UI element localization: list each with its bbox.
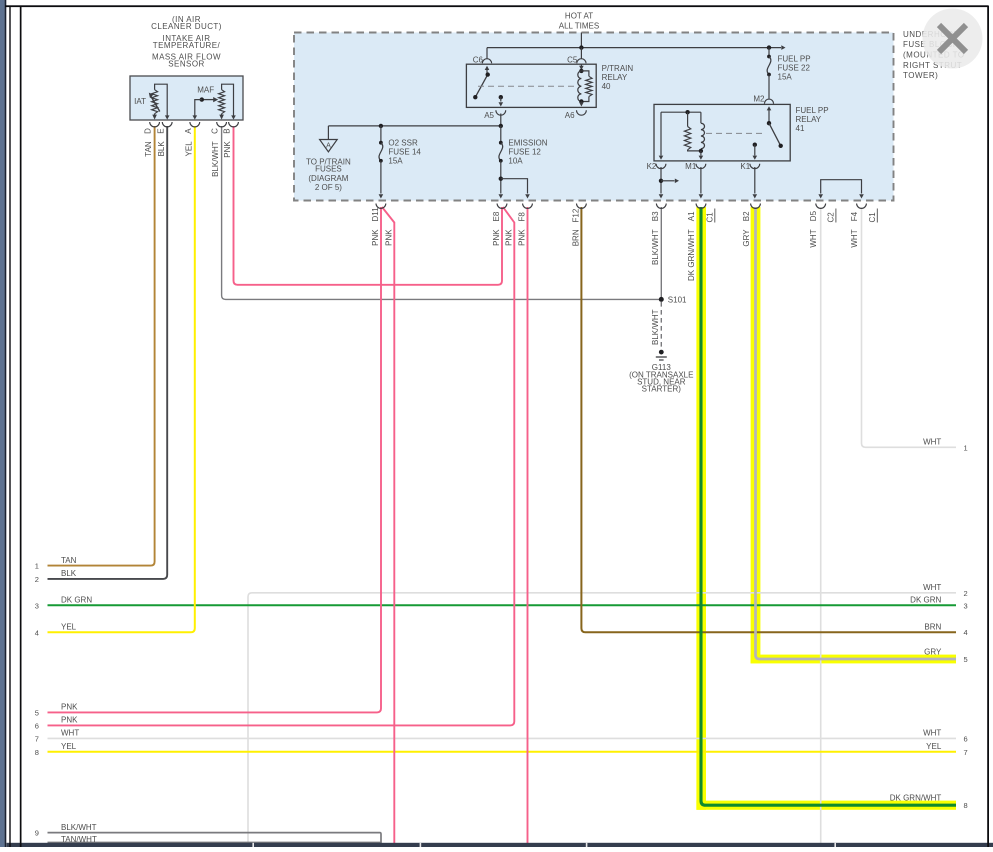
MAF wiper arrow: [202, 99, 214, 101]
svg-text:FUEL PP: FUEL PP: [778, 55, 811, 64]
svg-text:PNK: PNK: [223, 141, 232, 158]
highlight band: DK GRN/WHT wire (horizontal to right edge 8): [696, 801, 956, 810]
highlight band: GRY wire B2 (vertical): [751, 207, 761, 663]
svg-text:C1: C1: [705, 212, 714, 223]
bracket D5-F4 tie: [821, 180, 862, 194]
svg-text:F8: F8: [518, 212, 527, 222]
highlight band: GRY wire (horizontal to right edge 5): [751, 655, 956, 664]
svg-text:5: 5: [964, 655, 968, 664]
IAT/MAF sensor box: [130, 76, 243, 120]
wire PNK link MAF-B to E8: [234, 126, 503, 285]
svg-text:C2: C2: [826, 212, 835, 223]
highlight band: DK GRN/WHT wire A1 (vertical): [696, 207, 706, 810]
wire BLK/WHT to left edge 9: [48, 833, 382, 843]
bottom bar gap 4: [834, 843, 836, 847]
relay coil (inductor): [578, 71, 582, 102]
svg-text:TAN/WHT: TAN/WHT: [61, 835, 97, 844]
relay 41 internal dashed link: [706, 132, 763, 134]
svg-text:WHT: WHT: [923, 583, 941, 592]
svg-text:PNK: PNK: [518, 229, 527, 246]
svg-text:EMISSION: EMISSION: [508, 138, 547, 147]
svg-text:O2 SSR: O2 SSR: [388, 138, 418, 147]
wire BLK to left edge 2: [48, 126, 168, 579]
relay 41 coil resistor: [687, 112, 689, 126]
MAF wiper elbow to pin A: [195, 100, 202, 116]
svg-text:WHT: WHT: [923, 729, 941, 738]
bottom bar gap 3: [586, 843, 588, 847]
svg-text:A: A: [326, 142, 331, 149]
svg-text:K2: K2: [647, 162, 657, 171]
terminal C5 arc: [577, 59, 586, 64]
relay 41 switch arm M2: [768, 108, 770, 123]
svg-text:8: 8: [35, 748, 39, 757]
svg-text:3: 3: [964, 601, 968, 610]
sensor pin arrows at box bottom: [152, 115, 157, 120]
wire PNK vertical from connector F8 (to bottom): [527, 207, 529, 843]
wire BLK/WHT link sensor-C to splice S101: [222, 126, 662, 299]
wire BLK/WHT dashed to ground: [660, 302, 662, 349]
svg-text:6: 6: [35, 721, 39, 730]
underhood fuse block dashed border: [294, 33, 894, 201]
relay 41 coil inductor: [700, 112, 702, 123]
svg-text:BRN: BRN: [924, 622, 941, 631]
svg-text:BLK/WHT: BLK/WHT: [651, 309, 660, 345]
svg-text:M1: M1: [685, 162, 697, 171]
connector arc E8: [497, 204, 507, 209]
svg-text:40: 40: [602, 82, 611, 91]
close button circle: [923, 9, 983, 69]
wire PNK to left edge 6 (from E8 second): [48, 207, 515, 725]
svg-text:F4: F4: [850, 211, 859, 221]
svg-text:YEL: YEL: [926, 742, 942, 751]
connector arc B3: [656, 204, 666, 209]
wire WHT vertical from connector D5 (to bottom): [820, 207, 822, 843]
IAT bottom lead pin D: [154, 114, 156, 116]
svg-text:K1: K1: [740, 162, 750, 171]
svg-text:A1: A1: [687, 211, 696, 221]
svg-text:BRN: BRN: [571, 229, 580, 246]
svg-text:WHT: WHT: [61, 729, 79, 738]
left frame line inner: [20, 6, 22, 847]
svg-text:SENSOR: SENSOR: [168, 60, 205, 69]
svg-text:F12: F12: [571, 208, 580, 222]
sensor pin connector arcs: [150, 122, 160, 127]
svg-text:5: 5: [35, 708, 39, 717]
svg-text:4: 4: [964, 628, 968, 637]
svg-text:YEL: YEL: [61, 623, 77, 632]
svg-text:M2: M2: [753, 95, 765, 104]
svg-text:CLEANER DUCT): CLEANER DUCT): [151, 22, 222, 31]
svg-text:4: 4: [35, 628, 39, 637]
svg-text:PNK: PNK: [492, 229, 501, 246]
svg-text:P/TRAIN: P/TRAIN: [602, 64, 634, 73]
svg-text:BLK/WHT: BLK/WHT: [211, 141, 220, 177]
svg-text:YEL: YEL: [184, 141, 193, 157]
svg-text:RELAY: RELAY: [602, 73, 628, 82]
svg-text:D11: D11: [371, 207, 380, 222]
wire PNK to left edge 5 (from D11): [48, 207, 382, 712]
svg-text:DK GRN/WHT: DK GRN/WHT: [687, 229, 696, 281]
wire DK GRN horizontal full width 3: [48, 604, 957, 606]
svg-text:S101: S101: [668, 295, 687, 304]
wire DK GRN/WHT to right edge 8 (from A1): [701, 207, 956, 805]
junction node hot feed: [579, 45, 583, 49]
close button X: [939, 25, 966, 52]
wire PNK from connector D11 (second, slants then to bottom): [382, 207, 394, 843]
right frame line: [987, 6, 989, 847]
junction node fuel pp fuse tap: [767, 45, 771, 49]
top frame line: [5, 5, 989, 7]
terminal C6 arc: [482, 59, 491, 64]
riser to C6: [486, 48, 488, 59]
thermistor IAT: [152, 90, 158, 114]
riser to C5: [580, 48, 582, 59]
svg-text:DK GRN: DK GRN: [61, 596, 92, 605]
svg-text:A: A: [184, 128, 193, 134]
svg-text:FUSE 12: FUSE 12: [508, 148, 541, 157]
wire WHT to right edge 1 (from F4): [862, 207, 957, 447]
svg-text:TEMPERATURE/: TEMPERATURE/: [153, 41, 221, 50]
connector arc B2: [751, 204, 761, 209]
branch arrow right from K2 wire: [661, 180, 675, 182]
wire GRY to right edge 5 (from B2): [756, 207, 957, 659]
off-page triangle A: [320, 140, 338, 152]
svg-text:TOWER): TOWER): [903, 71, 938, 80]
wire hot feed vertical from top border: [580, 33, 582, 48]
svg-text:DK GRN: DK GRN: [910, 596, 941, 605]
fuse O2 SSR FUSE 14 15A: [380, 126, 382, 143]
svg-text:15A: 15A: [388, 157, 403, 166]
drop to triangle A: [327, 126, 329, 140]
underhood fuse block box (dashed, light blue): [294, 33, 894, 201]
svg-text:GRY: GRY: [924, 647, 942, 656]
svg-text:B: B: [223, 128, 232, 133]
svg-text:BLK: BLK: [61, 569, 77, 578]
svg-text:WHT: WHT: [809, 229, 818, 247]
relay switch contact to A5: [499, 95, 503, 99]
svg-text:D5: D5: [809, 210, 818, 221]
splice S101: [659, 297, 664, 302]
wire WHT horizontal full width left 7 / right 6: [48, 737, 957, 739]
bus continues arrow right: [781, 45, 785, 50]
wire YEL to left edge 4: [48, 126, 195, 632]
terminal A6 arc: [577, 110, 587, 115]
relay box FUEL PP RELAY 41: [654, 104, 790, 160]
connector arc A1: [696, 204, 706, 209]
wire A5 drop to bus: [500, 114, 502, 126]
svg-text:PNK: PNK: [371, 229, 380, 246]
bus wire horizontal: [487, 47, 781, 49]
svg-text:WHT: WHT: [923, 438, 941, 447]
svg-text:FUSE 14: FUSE 14: [388, 148, 421, 157]
ground G113 symbol: [659, 350, 664, 355]
svg-text:8: 8: [964, 801, 968, 810]
svg-text:2 OF 5): 2 OF 5): [315, 183, 342, 192]
fuse EMISSION FUSE 12 10A: [500, 126, 502, 143]
MAF top elbow to pin B: [222, 84, 234, 115]
svg-text:FUSES: FUSES: [315, 165, 342, 174]
svg-text:PNK: PNK: [61, 716, 78, 725]
left blue strip: [0, 0, 5, 847]
wire YEL horizontal full width left 8 / right 7: [48, 751, 957, 753]
wire WHT right edge 2 with corner down: [248, 593, 956, 843]
IAT thermistor arrow: [151, 96, 160, 112]
wire M1 to A1: [700, 167, 702, 194]
svg-text:A5: A5: [484, 111, 494, 120]
wire BRN to right edge 4 (from F12): [581, 207, 956, 632]
wire BLK/WHT vertical from connector B3 to splice S101: [660, 207, 662, 299]
junction node O2 fuse tap: [379, 124, 383, 128]
terminal M1 arc: [696, 164, 706, 169]
MAF wiper node: [200, 97, 204, 101]
svg-text:3: 3: [35, 601, 39, 610]
left strip dark edge: [5, 0, 7, 847]
svg-text:WHT: WHT: [850, 229, 859, 247]
svg-text:9: 9: [35, 829, 39, 838]
svg-text:C1: C1: [868, 212, 877, 223]
fuse FUEL PP FUSE 22 15A: [768, 48, 770, 57]
wire TAN to left edge 1: [48, 126, 155, 566]
svg-text:2: 2: [35, 575, 39, 584]
svg-text:C5: C5: [567, 56, 578, 65]
svg-text:10A: 10A: [508, 157, 523, 166]
wire TAN/WHT horizontal at bottom edge: [48, 841, 382, 843]
svg-text:6: 6: [964, 734, 968, 743]
connector arc D5: [816, 204, 826, 209]
svg-text:E8: E8: [492, 211, 501, 221]
svg-text:15A: 15A: [778, 73, 793, 82]
relay coil to A6: [580, 101, 582, 104]
relay coil resistor: [581, 71, 589, 76]
svg-text:C: C: [211, 128, 220, 134]
bottom bar gap 2: [420, 843, 422, 847]
svg-text:DK GRN/WHT: DK GRN/WHT: [890, 793, 942, 802]
emission fuse branch to F8: [499, 177, 503, 181]
svg-text:7: 7: [35, 734, 39, 743]
svg-text:1: 1: [964, 443, 968, 452]
connector arc F8: [523, 204, 533, 209]
terminal M2 arc: [764, 99, 773, 104]
IAT top elbow to pin E: [155, 84, 168, 115]
relay 41 switch contact to K1: [753, 143, 757, 147]
svg-text:ALL TIMES: ALL TIMES: [559, 21, 599, 30]
terminal K1 arc: [750, 164, 760, 169]
svg-text:MAF: MAF: [197, 85, 214, 94]
MAF bottom lead pin C: [221, 114, 223, 116]
resistor MAF: [219, 90, 225, 114]
svg-text:PNK: PNK: [384, 229, 393, 246]
relay internal dashed link: [478, 85, 578, 87]
svg-text:(DIAGRAM: (DIAGRAM: [308, 174, 348, 183]
bottom dark bar (clipped next page edge): [7, 843, 993, 847]
bottom bar gap 1: [252, 843, 254, 847]
connector arc F12: [577, 204, 587, 209]
svg-text:BLK/WHT: BLK/WHT: [651, 229, 660, 265]
svg-text:E: E: [156, 128, 165, 133]
bus wire horizontal A5 to triangle: [328, 125, 500, 127]
svg-text:TAN: TAN: [144, 141, 153, 157]
terminal A5 arc: [496, 110, 506, 115]
svg-text:7: 7: [964, 748, 968, 757]
svg-text:FUSE 22: FUSE 22: [778, 64, 811, 73]
connector arc D11: [376, 204, 386, 209]
svg-text:RELAY: RELAY: [796, 115, 822, 124]
svg-text:PNK: PNK: [61, 703, 78, 712]
svg-text:YEL: YEL: [61, 742, 77, 751]
wire K1 to B2: [754, 167, 756, 194]
relay box P/TRAIN RELAY 40: [466, 64, 596, 107]
svg-text:B2: B2: [742, 211, 751, 221]
svg-text:IAT: IAT: [134, 97, 146, 106]
svg-text:2: 2: [964, 589, 968, 598]
svg-text:GRY: GRY: [742, 229, 751, 247]
svg-text:B3: B3: [651, 211, 660, 221]
svg-text:A6: A6: [565, 111, 575, 120]
connector arc F4: [857, 204, 867, 209]
svg-text:41: 41: [796, 124, 805, 133]
svg-text:FUEL PP: FUEL PP: [796, 106, 829, 115]
svg-text:PNK: PNK: [504, 229, 513, 246]
svg-text:HOT AT: HOT AT: [565, 12, 593, 21]
wire K2 to B3 with branch: [660, 167, 662, 194]
terminal K2 arc: [656, 164, 666, 169]
svg-text:BLK: BLK: [157, 141, 166, 157]
svg-text:BLK/WHT: BLK/WHT: [61, 823, 97, 832]
left frame line outer: [9, 6, 10, 847]
relay coil feed C5: [580, 64, 582, 71]
svg-text:TAN: TAN: [61, 556, 77, 565]
svg-text:1: 1: [35, 562, 39, 571]
svg-text:C6: C6: [473, 56, 484, 65]
svg-text:STARTER): STARTER): [642, 385, 682, 394]
relay 41 coil top bus: [661, 111, 701, 113]
relay switch arm C6 side: [486, 68, 488, 75]
svg-text:D: D: [144, 128, 153, 134]
